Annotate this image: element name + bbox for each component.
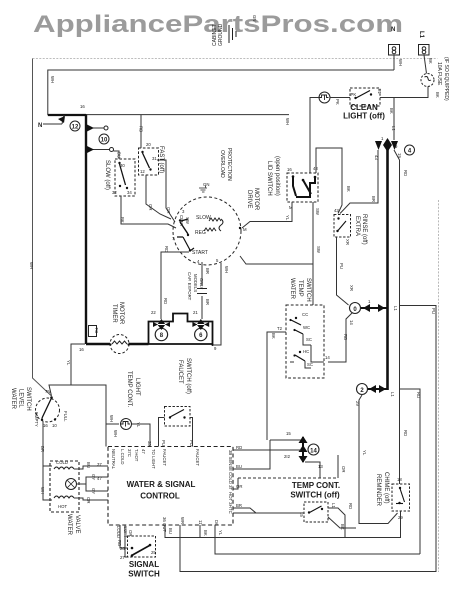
svg-text:16: 16 xyxy=(80,104,85,109)
svg-text:BR: BR xyxy=(40,446,45,452)
label FAUCET SWITCH (off) xyxy=(177,358,191,394)
svg-text:(IF SO EQUIPPED): (IF SO EQUIPPED) xyxy=(443,57,449,101)
svg-text:RD: RD xyxy=(348,503,353,509)
wire control bottom signal leads xyxy=(117,525,133,560)
control box pin labels right xyxy=(228,445,242,514)
switch extra rinse xyxy=(334,208,351,245)
svg-text:(open position): (open position) xyxy=(274,156,280,196)
control box pin labels bottom xyxy=(116,517,219,538)
svg-text:CONTROL: CONTROL xyxy=(140,492,180,501)
svg-text:21: 21 xyxy=(193,310,198,315)
svg-text:N: N xyxy=(391,27,395,33)
svg-text:RD: RD xyxy=(163,298,168,304)
svg-text:SW: SW xyxy=(315,208,320,216)
svg-text:WC: WC xyxy=(303,325,310,330)
svg-text:SW: SW xyxy=(185,217,190,225)
svg-text:SWITCH: SWITCH xyxy=(128,570,160,579)
water valve xyxy=(50,460,79,512)
svg-text:WR: WR xyxy=(180,517,185,524)
connector 12 xyxy=(70,104,85,131)
svg-text:PU: PU xyxy=(189,440,194,446)
connector 2 xyxy=(357,384,396,398)
svg-text:BU: BU xyxy=(168,528,173,534)
switch clean light xyxy=(350,88,382,106)
svg-text:HC: HC xyxy=(303,349,309,354)
wire BK control bottom xyxy=(200,525,208,538)
svg-text:BU: BU xyxy=(86,462,91,468)
node N junction xyxy=(38,115,86,129)
svg-text:31: 31 xyxy=(152,156,157,161)
wire main left bus (thick) xyxy=(85,114,87,344)
svg-text:YL: YL xyxy=(218,530,223,536)
terminal L1 xyxy=(418,31,429,55)
wire connector 0 to water temp 14 xyxy=(325,313,354,362)
wire lid 43 feed xyxy=(316,148,342,214)
svg-text:10: 10 xyxy=(52,423,57,428)
svg-text:OR: OR xyxy=(166,207,171,213)
svg-text:COLD: COLD xyxy=(56,460,68,465)
timer motor M2 xyxy=(109,335,129,354)
wire RD control to cluster xyxy=(233,449,301,451)
switch water temp xyxy=(286,305,324,378)
svg-text:SW: SW xyxy=(316,246,321,254)
node bus stub with pin xyxy=(86,124,108,132)
svg-text:22: 22 xyxy=(151,310,156,315)
svg-text:2I2: 2I2 xyxy=(284,454,291,459)
svg-text:N: N xyxy=(38,123,42,129)
wire BR motor to capacitor xyxy=(193,262,210,319)
svg-text:WATER & SIGNAL: WATER & SIGNAL xyxy=(127,480,196,489)
wire BR water level to valve xyxy=(40,421,52,500)
svg-text:47: 47 xyxy=(141,449,146,454)
svg-text:LEVEL: LEVEL xyxy=(18,389,24,408)
wire 29 YL from connector 2 xyxy=(355,395,398,524)
svg-text:PU: PU xyxy=(339,263,344,269)
svg-text:SLOW: SLOW xyxy=(196,215,211,221)
svg-text:TIMER: TIMER xyxy=(111,304,117,323)
svg-text:20: 20 xyxy=(146,142,151,147)
svg-text:GY: GY xyxy=(91,474,96,480)
wire thick timer bus horizontal xyxy=(86,343,149,345)
wire WH motor neutral xyxy=(213,263,230,345)
frame border xyxy=(33,59,439,573)
svg-text:START: START xyxy=(192,250,208,256)
fuse F1 10A xyxy=(421,58,440,98)
wire top horizontal bus xyxy=(86,114,289,116)
ground symbol xyxy=(229,25,236,43)
switch lid SW1 xyxy=(287,166,320,216)
svg-text:11: 11 xyxy=(198,520,203,525)
svg-text:RD: RD xyxy=(164,246,169,252)
svg-text:7: 7 xyxy=(172,236,175,241)
svg-text:8: 8 xyxy=(160,333,164,339)
svg-text:L1: L1 xyxy=(393,306,398,311)
label 10A FUSE (IF SO EQUIPPED) xyxy=(436,57,449,101)
wire temp cont out RD xyxy=(328,503,353,538)
svg-text:4: 4 xyxy=(197,259,200,264)
svg-text:RD: RD xyxy=(139,126,144,132)
svg-text:16: 16 xyxy=(287,167,292,172)
svg-text:1: 1 xyxy=(381,136,384,141)
wire BU control bottom xyxy=(165,525,200,538)
label CLEAN LIGHT (off) xyxy=(343,103,385,121)
svg-text:1: 1 xyxy=(368,299,371,304)
label CAP EXPORT MODELS ONLY xyxy=(187,272,204,301)
terminal block 8/6 xyxy=(149,314,218,352)
drive motor M1 xyxy=(172,197,247,265)
wire fuse to clean light (BK) xyxy=(394,87,428,98)
wire chime 29 down xyxy=(200,511,401,538)
svg-text:2: 2 xyxy=(360,388,364,394)
svg-text:RINSE (off): RINSE (off) xyxy=(361,214,367,245)
svg-text:RD: RD xyxy=(416,392,421,398)
svg-text:29: 29 xyxy=(355,401,360,406)
svg-text:BU: BU xyxy=(236,464,242,469)
wire WH top bus xyxy=(48,70,394,115)
svg-text:BK: BK xyxy=(271,333,276,339)
svg-text:47: 47 xyxy=(97,476,102,481)
svg-text:L1: L1 xyxy=(390,392,395,397)
svg-text:PU: PU xyxy=(161,440,166,446)
connector 14 cluster xyxy=(284,431,323,469)
svg-text:SLOW (off): SLOW (off) xyxy=(104,160,110,190)
svg-text:WATER: WATER xyxy=(289,278,295,300)
svg-text:BK: BK xyxy=(389,108,394,114)
svg-text:YL: YL xyxy=(285,215,290,221)
label SIGNAL SWITCH xyxy=(128,560,160,579)
svg-text:WH: WH xyxy=(398,59,403,66)
wire PU right loop xyxy=(180,306,436,572)
label WATER LEVEL SWITCH xyxy=(10,387,31,411)
connector TC xyxy=(79,326,99,353)
svg-text:RD: RD xyxy=(343,334,348,340)
svg-text:L.COLD: L.COLD xyxy=(120,449,125,465)
svg-text:10: 10 xyxy=(101,138,108,144)
svg-text:PK: PK xyxy=(335,99,340,105)
label REMINDER CHIME (off) xyxy=(375,472,389,507)
svg-text:HOT 3H: HOT 3H xyxy=(228,492,233,508)
wire 13 from cluster xyxy=(305,462,320,478)
svg-text:BK: BK xyxy=(435,92,440,98)
svg-text:9: 9 xyxy=(214,346,217,351)
svg-text:OR: OR xyxy=(148,204,153,210)
svg-text:14: 14 xyxy=(325,355,330,360)
svg-text:CHIME (off): CHIME (off) xyxy=(383,472,389,504)
wire BU control jog xyxy=(233,440,270,469)
svg-text:PROTECTION: PROTECTION xyxy=(226,148,232,181)
svg-text:ONLY: ONLY xyxy=(199,278,204,290)
wire L1 lead to fuse xyxy=(424,55,427,74)
label WATER TEMP SWITCH xyxy=(289,278,311,302)
wire BR exit stub xyxy=(233,508,256,513)
wire OR fast outputs xyxy=(146,160,175,222)
svg-text:MOTOR: MOTOR xyxy=(253,188,259,211)
label TEMP CONT. LIGHT xyxy=(126,371,140,408)
svg-text:OR: OR xyxy=(236,484,242,489)
svg-text:TEMP CONT.: TEMP CONT. xyxy=(292,481,340,490)
svg-text:HOT: HOT xyxy=(58,504,67,509)
svg-text:34: 34 xyxy=(127,190,132,195)
svg-text:9: 9 xyxy=(395,144,398,149)
wire lid M to motor (YL) xyxy=(242,202,292,228)
label TEMP CONT. SWITCH (off) xyxy=(290,481,340,500)
svg-text:L1: L1 xyxy=(377,89,382,94)
svg-text:43: 43 xyxy=(374,155,379,160)
wire RD branch right xyxy=(400,389,422,554)
svg-text:15: 15 xyxy=(286,431,291,436)
svg-text:COLD 3T: COLD 3T xyxy=(228,472,233,491)
svg-text:GN: GN xyxy=(252,15,257,21)
svg-text:12: 12 xyxy=(72,125,79,131)
svg-text:28: 28 xyxy=(120,546,125,551)
svg-text:WH: WH xyxy=(109,415,114,422)
wire 43 drop from L1 node xyxy=(340,150,379,214)
svg-text:TEMP CONT.: TEMP CONT. xyxy=(126,371,132,408)
wire valve outputs xyxy=(74,462,108,503)
svg-text:RD: RD xyxy=(403,430,408,436)
switch reminder chime xyxy=(392,477,410,520)
svg-text:10A FUSE: 10A FUSE xyxy=(436,62,442,86)
wire faucet leads xyxy=(159,418,193,447)
svg-text:0: 0 xyxy=(353,307,357,313)
wire lid SW down xyxy=(240,202,321,305)
label WATER VALVE xyxy=(66,514,80,536)
svg-text:BK: BK xyxy=(346,186,351,192)
svg-text:BR: BR xyxy=(236,503,242,508)
svg-text:SIGNAL: SIGNAL xyxy=(129,560,159,569)
label TIMER MOTOR xyxy=(111,302,124,325)
svg-text:32: 32 xyxy=(112,190,117,195)
wire WH neutral left edge xyxy=(29,59,52,397)
svg-text:XR: XR xyxy=(345,239,350,245)
svg-text:13: 13 xyxy=(318,464,323,469)
svg-text:YL: YL xyxy=(66,360,71,366)
svg-text:YL: YL xyxy=(136,422,141,428)
label DRIVE MOTOR xyxy=(246,188,259,211)
svg-text:18: 18 xyxy=(397,477,402,482)
svg-text:37C: 37C xyxy=(127,449,132,457)
svg-text:EMPTY: EMPTY xyxy=(34,412,39,427)
svg-text:SWITCH: SWITCH xyxy=(25,387,31,411)
wire L1 thick bus xyxy=(386,144,389,390)
svg-text:L1: L1 xyxy=(418,31,424,39)
svg-text:4: 4 xyxy=(408,149,412,155)
svg-text:BU: BU xyxy=(117,152,122,158)
svg-text:WH: WH xyxy=(285,118,290,125)
wire N lead xyxy=(393,55,395,70)
wire BK slow output xyxy=(120,196,176,228)
svg-text:LID SWITCH: LID SWITCH xyxy=(266,161,272,196)
svg-text:SWITCH (off): SWITCH (off) xyxy=(185,358,191,394)
motor ground GN xyxy=(199,182,209,192)
svg-text:TO LIGHT: TO LIGHT xyxy=(151,449,156,469)
svg-text:MODELS: MODELS xyxy=(193,274,198,292)
svg-text:LIGHT (off): LIGHT (off) xyxy=(343,112,385,121)
svg-text:WH: WH xyxy=(29,262,34,269)
wire XR to connector 0 xyxy=(337,237,355,305)
wire RD bus from node 19 xyxy=(394,150,408,484)
svg-text:25: 25 xyxy=(151,550,156,555)
wire lamp left down xyxy=(310,98,319,174)
wire lamp YL to control xyxy=(132,424,150,447)
label EXTRA RINSE (off) xyxy=(354,214,367,245)
svg-text:T.HOT: T.HOT xyxy=(134,449,139,462)
svg-text:OR: OR xyxy=(341,466,346,472)
svg-text:PU: PU xyxy=(431,308,436,314)
svg-text:FAUCET: FAUCET xyxy=(162,449,167,466)
svg-text:16: 16 xyxy=(79,347,84,352)
svg-text:PK: PK xyxy=(351,92,357,97)
svg-text:XR: XR xyxy=(349,285,354,291)
svg-text:NEUTRAL: NEUTRAL xyxy=(111,449,116,470)
switch FAST (off) xyxy=(139,142,159,175)
svg-text:WATER: WATER xyxy=(10,388,16,410)
svg-text:RD: RD xyxy=(403,170,408,176)
svg-text:FAUCET: FAUCET xyxy=(177,360,183,384)
wire BK water temp feed xyxy=(267,326,286,440)
svg-text:OVERLOAD: OVERLOAD xyxy=(219,150,225,178)
svg-text:WH: WH xyxy=(224,266,229,273)
svg-text:L1: L1 xyxy=(391,126,396,131)
svg-text:3B SENSE: 3B SENSE xyxy=(228,450,233,471)
svg-text:YL: YL xyxy=(362,450,367,456)
svg-text:TC: TC xyxy=(94,328,99,334)
svg-text:REMINDER: REMINDER xyxy=(375,474,381,507)
svg-text:27: 27 xyxy=(120,555,125,560)
control box pin labels top xyxy=(111,440,200,470)
svg-text:GROUND: GROUND xyxy=(218,23,224,46)
svg-text:FULL: FULL xyxy=(63,411,68,422)
wire OR dashed run xyxy=(233,455,346,489)
switch temp cont xyxy=(299,502,336,522)
svg-text:37: 37 xyxy=(97,462,102,467)
svg-text:5: 5 xyxy=(216,258,219,263)
svg-text:EXTRA: EXTRA xyxy=(354,216,360,236)
svg-text:SC: SC xyxy=(306,337,312,342)
svg-text:SWITCH: SWITCH xyxy=(305,278,311,302)
svg-text:WATER: WATER xyxy=(66,514,72,536)
connector 4 xyxy=(405,145,415,155)
wire temp cont BK xyxy=(328,517,356,530)
svg-text:CENT: CENT xyxy=(179,215,184,227)
terminal N xyxy=(389,27,400,55)
svg-text:VALVE: VALVE xyxy=(74,515,80,533)
svg-text:OR: OR xyxy=(128,530,133,536)
switch signal xyxy=(128,536,157,557)
svg-text:TEMP: TEMP xyxy=(297,280,303,297)
svg-text:BR: BR xyxy=(205,268,210,274)
svg-text:14: 14 xyxy=(310,449,317,455)
svg-text:CC: CC xyxy=(302,312,308,317)
wire YL timer to water level / lamp xyxy=(49,344,119,424)
svg-text:TC: TC xyxy=(228,508,233,514)
lamp temp cont light xyxy=(109,415,141,437)
wire clean switch to L1 drop xyxy=(380,98,396,141)
wire RD start to terminal 22 xyxy=(151,246,189,319)
wire temp cont feed xyxy=(233,512,304,514)
svg-text:CAP. EXPORT: CAP. EXPORT xyxy=(187,272,192,301)
wire lamp to switch xyxy=(330,97,350,99)
wire connector 0 to L1 bus (thick) xyxy=(361,299,398,312)
svg-text:GN: GN xyxy=(203,182,209,187)
label OVERLOAD PROTECTION xyxy=(219,148,232,181)
connector 10 xyxy=(99,134,109,144)
svg-text:30: 30 xyxy=(120,163,125,168)
svg-text:19: 19 xyxy=(397,153,402,158)
wire RD fast feed xyxy=(139,115,144,148)
control box water & signal xyxy=(108,447,233,526)
wire BU to slow switch xyxy=(86,146,122,160)
svg-text:SC: SC xyxy=(307,362,313,367)
svg-text:BK: BK xyxy=(203,530,208,536)
svg-text:BK: BK xyxy=(340,524,345,530)
node L1 junction diamonds xyxy=(375,136,398,152)
wire 15 into cluster xyxy=(270,439,301,441)
svg-text:WH: WH xyxy=(50,76,55,83)
svg-text:WH: WH xyxy=(113,430,118,437)
switch SLOW (off) xyxy=(112,159,135,196)
switch faucet xyxy=(165,407,191,427)
connector 0 xyxy=(350,303,361,314)
svg-text:BR: BR xyxy=(371,196,376,202)
svg-text:M: M xyxy=(243,227,247,232)
svg-text:BR: BR xyxy=(205,299,210,305)
svg-text:T2: T2 xyxy=(277,326,283,331)
svg-text:12: 12 xyxy=(140,169,145,174)
svg-text:3: 3 xyxy=(182,209,185,214)
label LID SWITCH (open position) xyxy=(266,156,280,196)
svg-text:6: 6 xyxy=(199,333,203,339)
svg-text:RD: RD xyxy=(236,445,242,450)
svg-text:DRIVE: DRIVE xyxy=(246,190,252,208)
lamp PK clean light xyxy=(319,92,340,105)
svg-text:GY: GY xyxy=(91,488,96,494)
svg-text:BK: BK xyxy=(120,217,125,223)
svg-text:SWITCH (off): SWITCH (off) xyxy=(290,491,340,500)
svg-text:OR: OR xyxy=(86,497,91,503)
svg-text:MOTOR: MOTOR xyxy=(118,302,124,325)
svg-text:7N: 7N xyxy=(45,389,51,394)
water level switch xyxy=(34,389,68,428)
svg-text:LIGHT: LIGHT xyxy=(134,378,140,396)
svg-text:16: 16 xyxy=(43,423,48,428)
cabinet ground label xyxy=(212,23,224,46)
svg-text:FAUCET: FAUCET xyxy=(195,449,200,466)
svg-text:BK: BK xyxy=(428,58,433,64)
svg-text:14: 14 xyxy=(349,320,354,325)
svg-text:43: 43 xyxy=(334,208,339,213)
wire YL control bottom xyxy=(215,525,420,554)
